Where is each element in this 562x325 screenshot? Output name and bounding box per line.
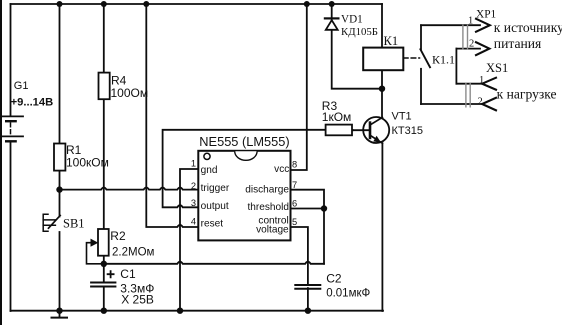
svg-text:100кОм: 100кОм: [66, 155, 109, 169]
svg-text:8: 8: [292, 159, 297, 169]
svg-text:discharge: discharge: [245, 184, 289, 195]
svg-text:к нагрузке: к нагрузке: [497, 86, 557, 101]
svg-text:G1: G1: [14, 80, 29, 92]
svg-text:2: 2: [191, 181, 196, 191]
svg-text:К1.1: К1.1: [432, 53, 455, 67]
svg-text:6: 6: [292, 199, 297, 209]
svg-text:NE555 (LM555): NE555 (LM555): [199, 134, 289, 149]
svg-text:4: 4: [191, 216, 196, 226]
svg-text:output: output: [201, 201, 229, 212]
svg-text:3: 3: [191, 198, 196, 208]
svg-text:C1: C1: [120, 267, 136, 281]
svg-text:trigger: trigger: [201, 183, 230, 194]
svg-text:КД105Б: КД105Б: [341, 26, 378, 38]
svg-text:+9...14В: +9...14В: [11, 97, 54, 109]
svg-text:reset: reset: [201, 219, 224, 230]
svg-text:0.01мкФ: 0.01мкФ: [326, 288, 370, 300]
svg-text:gnd: gnd: [201, 165, 218, 176]
svg-text:VT1: VT1: [392, 110, 412, 122]
svg-text:1кОм: 1кОм: [322, 110, 352, 124]
svg-text:R2: R2: [110, 229, 126, 243]
svg-text:2.2МОм: 2.2МОм: [112, 246, 155, 258]
svg-text:voltage: voltage: [256, 225, 289, 236]
svg-text:X 25В: X 25В: [121, 292, 154, 306]
svg-text:1: 1: [191, 158, 196, 168]
svg-text:2: 2: [478, 97, 483, 108]
svg-text:vcc: vcc: [274, 164, 289, 175]
svg-text:C2: C2: [326, 272, 342, 286]
svg-text:VD1: VD1: [341, 14, 363, 26]
svg-text:100Ом: 100Ом: [111, 86, 149, 100]
svg-text:питания: питания: [494, 36, 542, 51]
svg-text:XS1: XS1: [486, 61, 508, 75]
svg-text:SB1: SB1: [63, 217, 85, 231]
svg-text:1: 1: [479, 75, 484, 86]
svg-text:XP1: XP1: [476, 9, 497, 21]
svg-text:1: 1: [468, 16, 473, 27]
svg-text:2: 2: [469, 39, 474, 50]
svg-text:КТ315: КТ315: [392, 125, 423, 137]
svg-text:К1: К1: [384, 34, 399, 48]
svg-text:5: 5: [292, 217, 297, 227]
svg-text:7: 7: [292, 180, 297, 190]
svg-text:threshold: threshold: [247, 202, 289, 213]
svg-text:к источнику: к источнику: [494, 20, 562, 35]
